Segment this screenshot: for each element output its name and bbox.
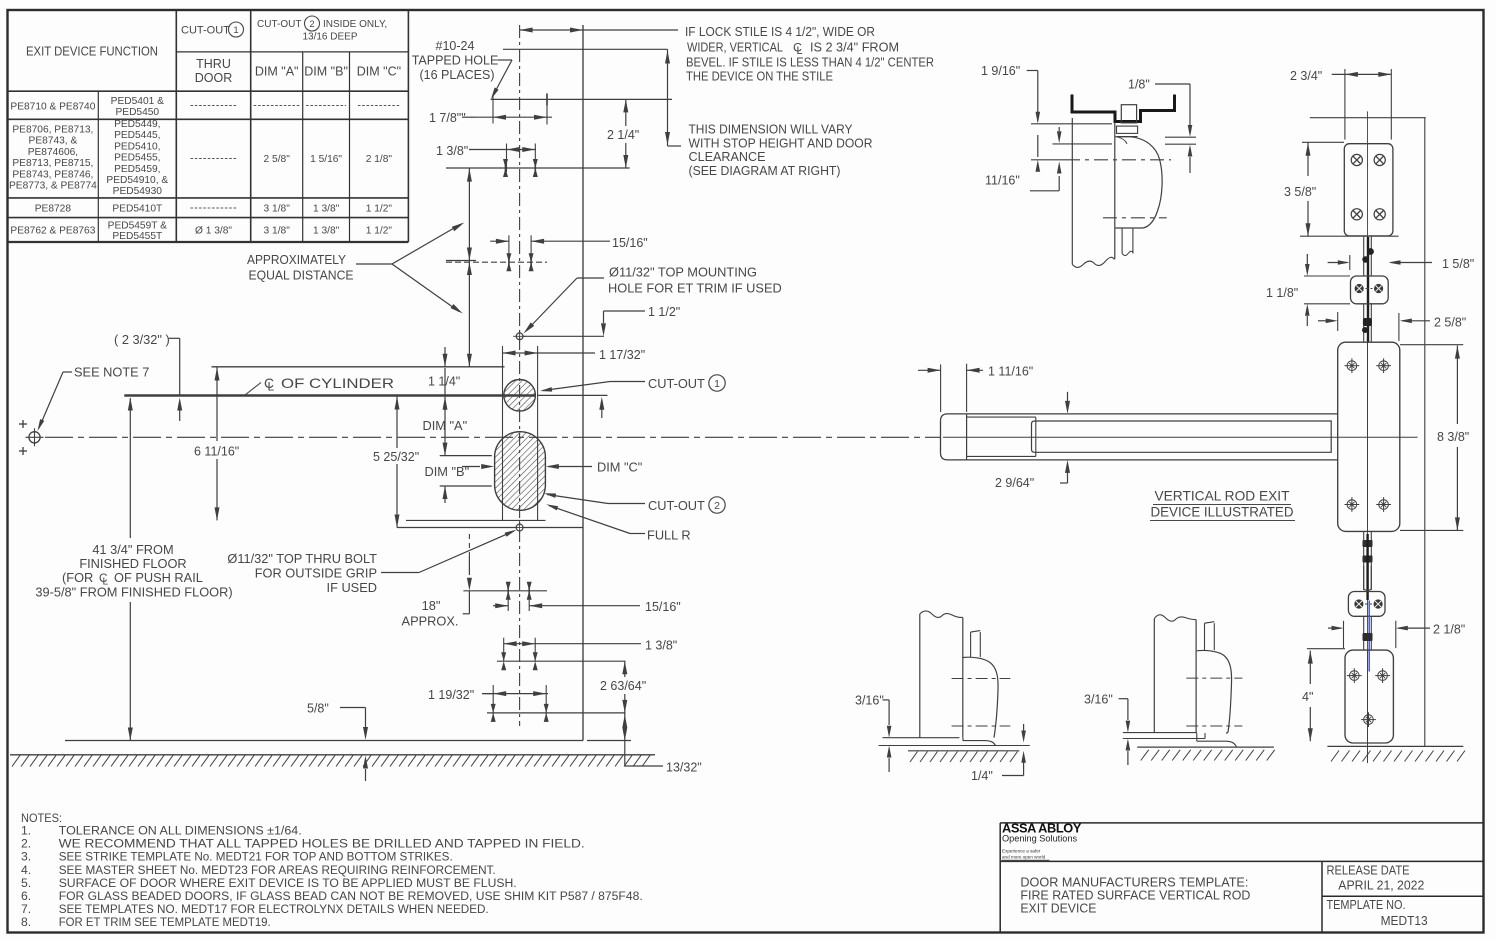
svg-text:(SEE DIAGRAM AT RIGHT): (SEE DIAGRAM AT RIGHT) — [689, 163, 841, 178]
svg-text:1 5/16": 1 5/16" — [310, 154, 342, 165]
svg-text:1 1/2": 1 1/2" — [366, 226, 393, 237]
svg-text:Ø11/32" TOP THRU BOLT: Ø11/32" TOP THRU BOLT — [227, 551, 377, 566]
svg-text:15/16": 15/16" — [645, 600, 681, 614]
svg-text:Experience a safer: Experience a safer — [1002, 849, 1041, 854]
svg-text:2.: 2. — [21, 837, 31, 851]
svg-text:1 7/8"": 1 7/8"" — [429, 111, 466, 125]
svg-text:RELEASE DATE: RELEASE DATE — [1327, 863, 1410, 878]
svg-text:PED5410T: PED5410T — [112, 204, 162, 215]
svg-text:18": 18" — [422, 598, 441, 613]
svg-text:39-5/8" FROM FINISHED FLOOR): 39-5/8" FROM FINISHED FLOOR) — [35, 585, 232, 600]
svg-text:1 11/16": 1 11/16" — [988, 365, 1033, 379]
svg-text:PED5459T &: PED5459T & — [108, 221, 167, 232]
svg-text:PED5445,: PED5445, — [114, 130, 160, 141]
svg-text:1 5/8": 1 5/8" — [1442, 257, 1474, 271]
svg-text:2 63/64": 2 63/64" — [600, 679, 646, 693]
svg-text:CUT-OUT: CUT-OUT — [257, 19, 301, 30]
svg-text:PED5449,: PED5449, — [114, 119, 160, 130]
svg-text:5 25/32": 5 25/32" — [373, 450, 419, 464]
svg-text:2 1/4": 2 1/4" — [607, 128, 639, 142]
svg-text:2 5/8": 2 5/8" — [1434, 316, 1466, 330]
svg-text:TEMPLATE NO.: TEMPLATE NO. — [1327, 897, 1406, 912]
svg-text:TOLERANCE ON ALL DIMENSIONS ±1: TOLERANCE ON ALL DIMENSIONS ±1/64. — [59, 824, 302, 838]
svg-text:PE8728: PE8728 — [35, 204, 72, 215]
svg-text:8.: 8. — [21, 915, 31, 929]
svg-text:PE8743, &: PE8743, & — [29, 136, 78, 147]
svg-text:OF PUSH RAIL: OF PUSH RAIL — [114, 570, 203, 585]
svg-text:CUT-OUT: CUT-OUT — [181, 25, 230, 37]
svg-text:CUT-OUT: CUT-OUT — [648, 498, 705, 513]
svg-text:DIM "C": DIM "C" — [597, 460, 642, 475]
svg-text:Opening Solutions: Opening Solutions — [1002, 834, 1077, 844]
svg-text:FULL R: FULL R — [647, 528, 691, 543]
svg-text:1/8": 1/8" — [1128, 78, 1150, 92]
svg-text:PE8773, & PE8774: PE8773, & PE8774 — [9, 181, 97, 192]
svg-text:DIM "A": DIM "A" — [423, 418, 468, 433]
svg-text:PED5455T: PED5455T — [112, 231, 162, 242]
svg-text:4.: 4. — [21, 863, 31, 877]
svg-text:3 5/8": 3 5/8" — [1284, 185, 1316, 199]
svg-text:2 1/8": 2 1/8" — [366, 154, 393, 165]
svg-text:PED5450: PED5450 — [115, 107, 159, 118]
svg-text:PE8706, PE8713,: PE8706, PE8713, — [12, 125, 93, 136]
svg-text:Ø 1 3/8": Ø 1 3/8" — [195, 226, 232, 237]
svg-text:FOR ET TRIM SEE TEMPLATE MEDT1: FOR ET TRIM SEE TEMPLATE MEDT19. — [59, 915, 271, 929]
svg-text:CUT-OUT: CUT-OUT — [648, 376, 705, 391]
svg-text:SEE TEMPLATES NO. MEDT17 FOR E: SEE TEMPLATES NO. MEDT17 FOR ELECTROLYNX… — [59, 902, 489, 916]
svg-text:APPROX.: APPROX. — [402, 614, 459, 629]
svg-text:TAPPED HOLE: TAPPED HOLE — [412, 54, 499, 68]
svg-text:(16 PLACES): (16 PLACES) — [419, 68, 494, 82]
svg-text:PED5455,: PED5455, — [114, 153, 160, 164]
svg-text:DIM "A": DIM "A" — [255, 65, 299, 79]
svg-text:DIM "C": DIM "C" — [357, 65, 401, 79]
svg-text:IF USED: IF USED — [327, 580, 377, 595]
svg-text:3/16": 3/16" — [855, 694, 884, 708]
svg-text:3/16": 3/16" — [1084, 693, 1113, 707]
svg-text:and more open world: and more open world — [1002, 854, 1046, 859]
svg-text:8 3/8": 8 3/8" — [1437, 430, 1469, 444]
svg-text:HOLE FOR ET TRIM IF USED: HOLE FOR ET TRIM IF USED — [608, 281, 782, 296]
svg-text:1 1/2": 1 1/2" — [648, 305, 680, 319]
svg-text:EQUAL DISTANCE: EQUAL DISTANCE — [249, 268, 354, 283]
svg-text:FOR OUTSIDE GRIP: FOR OUTSIDE GRIP — [255, 566, 377, 581]
svg-text:PE8762 & PE8763: PE8762 & PE8763 — [10, 226, 95, 237]
svg-text:MEDT13: MEDT13 — [1381, 913, 1428, 928]
svg-text:APPROXIMATELY: APPROXIMATELY — [247, 252, 346, 267]
svg-text:1 1/4": 1 1/4" — [428, 375, 460, 389]
svg-text:41 3/4" FROM: 41 3/4" FROM — [92, 542, 173, 557]
svg-text:2 1/8": 2 1/8" — [1433, 623, 1465, 637]
svg-text:6 11/16": 6 11/16" — [194, 445, 239, 459]
svg-text:PE8743, PE8746,: PE8743, PE8746, — [12, 169, 93, 180]
svg-text:Ø11/32" TOP MOUNTING: Ø11/32" TOP MOUNTING — [609, 265, 757, 280]
svg-text:7.: 7. — [21, 902, 31, 916]
svg-text:5.: 5. — [21, 876, 31, 890]
svg-text:PE874606,: PE874606, — [28, 147, 78, 158]
svg-text:DIM "B": DIM "B" — [304, 65, 348, 79]
svg-text:PE8710 & PE8740: PE8710 & PE8740 — [10, 102, 95, 113]
svg-text:SEE MASTER SHEET No. MEDT23 FO: SEE MASTER SHEET No. MEDT23 FOR AREAS RE… — [59, 863, 496, 877]
svg-text:13/16 DEEP: 13/16 DEEP — [302, 32, 357, 43]
svg-text:SURFACE OF DOOR WHERE EXIT DEV: SURFACE OF DOOR WHERE EXIT DEVICE IS TO … — [59, 876, 517, 890]
svg-text:#10-24: #10-24 — [436, 39, 475, 53]
svg-text:1 9/16": 1 9/16" — [981, 64, 1020, 78]
svg-text:3 1/8": 3 1/8" — [264, 204, 291, 215]
svg-text:THRU: THRU — [196, 57, 231, 71]
svg-text:2 5/8": 2 5/8" — [264, 154, 291, 165]
svg-text:PE8713, PE8715,: PE8713, PE8715, — [12, 158, 93, 169]
svg-text:PED5401 &: PED5401 & — [111, 96, 164, 107]
svg-text:1 19/32": 1 19/32" — [428, 688, 474, 702]
svg-text:1 1/8": 1 1/8" — [1266, 286, 1298, 300]
svg-text:EXIT DEVICE FUNCTION: EXIT DEVICE FUNCTION — [26, 44, 158, 59]
svg-text:PED5459,: PED5459, — [114, 164, 160, 175]
svg-text:1: 1 — [714, 378, 720, 390]
svg-text:( 2 3/32" ): ( 2 3/32" ) — [114, 332, 170, 347]
svg-text:2: 2 — [309, 19, 314, 30]
svg-text:1 3/8": 1 3/8" — [645, 639, 677, 653]
svg-text:2 3/4": 2 3/4" — [1290, 69, 1322, 83]
svg-text:1 1/2": 1 1/2" — [366, 204, 393, 215]
svg-text:3.: 3. — [21, 850, 31, 864]
svg-text:SEE STRIKE TEMPLATE No. MEDT21: SEE STRIKE TEMPLATE No. MEDT21 FOR TOP A… — [59, 850, 453, 864]
svg-text:2: 2 — [714, 500, 720, 512]
svg-text:1 3/8": 1 3/8" — [313, 204, 340, 215]
svg-text:1: 1 — [233, 25, 238, 36]
svg-text:WE RECOMMEND THAT ALL TAPPED H: WE RECOMMEND THAT ALL TAPPED HOLES BE DR… — [59, 837, 585, 851]
svg-text:5/8": 5/8" — [307, 702, 329, 716]
svg-text:1/4": 1/4" — [971, 769, 993, 783]
svg-text:1 3/8": 1 3/8" — [436, 144, 468, 158]
svg-text:2 9/64": 2 9/64" — [995, 476, 1034, 490]
svg-text:1.: 1. — [21, 824, 31, 838]
svg-text:6.: 6. — [21, 889, 31, 903]
svg-text:WIDER, VERTICAL: WIDER, VERTICAL — [687, 40, 783, 55]
svg-text:FINISHED FLOOR: FINISHED FLOOR — [79, 556, 186, 571]
svg-text:SEE NOTE 7: SEE NOTE 7 — [74, 365, 149, 380]
svg-text:FOR GLASS BEADED DOORS, IF GLA: FOR GLASS BEADED DOORS, IF GLASS BEAD CA… — [59, 889, 643, 903]
svg-text:1 3/8": 1 3/8" — [313, 226, 340, 237]
svg-text:(FOR: (FOR — [62, 570, 93, 585]
svg-text:13/32": 13/32" — [666, 761, 702, 775]
svg-text:3 1/8": 3 1/8" — [264, 226, 291, 237]
svg-text:4": 4" — [1302, 690, 1313, 704]
svg-text:DEVICE ILLUSTRATED: DEVICE ILLUSTRATED — [1151, 505, 1294, 520]
svg-text:1 17/32": 1 17/32" — [599, 348, 645, 362]
svg-text:THIS DIMENSION WILL VARY: THIS DIMENSION WILL VARY — [689, 122, 853, 137]
svg-text:APRIL 21, 2022: APRIL 21, 2022 — [1338, 878, 1424, 893]
svg-text:OF CYLINDER: OF CYLINDER — [281, 375, 394, 391]
svg-text:VERTICAL ROD EXIT: VERTICAL ROD EXIT — [1155, 489, 1290, 504]
svg-text:PED5410,: PED5410, — [114, 141, 160, 152]
svg-text:L: L — [268, 380, 275, 394]
svg-text:PED54910, &: PED54910, & — [106, 175, 168, 186]
svg-text:THE DEVICE ON THE STILE: THE DEVICE ON THE STILE — [686, 69, 833, 84]
svg-text:DOOR: DOOR — [195, 71, 233, 85]
svg-text:IS 2 3/4" FROM: IS 2 3/4" FROM — [810, 40, 899, 55]
svg-text:11/16": 11/16" — [985, 174, 1020, 188]
svg-text:BEVEL. IF STILE IS LESS THAN 4: BEVEL. IF STILE IS LESS THAN 4 1/2" CENT… — [686, 55, 934, 70]
svg-text:15/16": 15/16" — [612, 236, 648, 250]
svg-text:INSIDE ONLY,: INSIDE ONLY, — [323, 19, 387, 30]
svg-text:EXIT DEVICE: EXIT DEVICE — [1020, 901, 1096, 916]
svg-text:CLEARANCE: CLEARANCE — [689, 149, 766, 164]
svg-text:IF LOCK STILE IS 4 1/2", WIDE: IF LOCK STILE IS 4 1/2", WIDE OR — [685, 24, 875, 39]
svg-text:PED54930: PED54930 — [113, 186, 163, 197]
